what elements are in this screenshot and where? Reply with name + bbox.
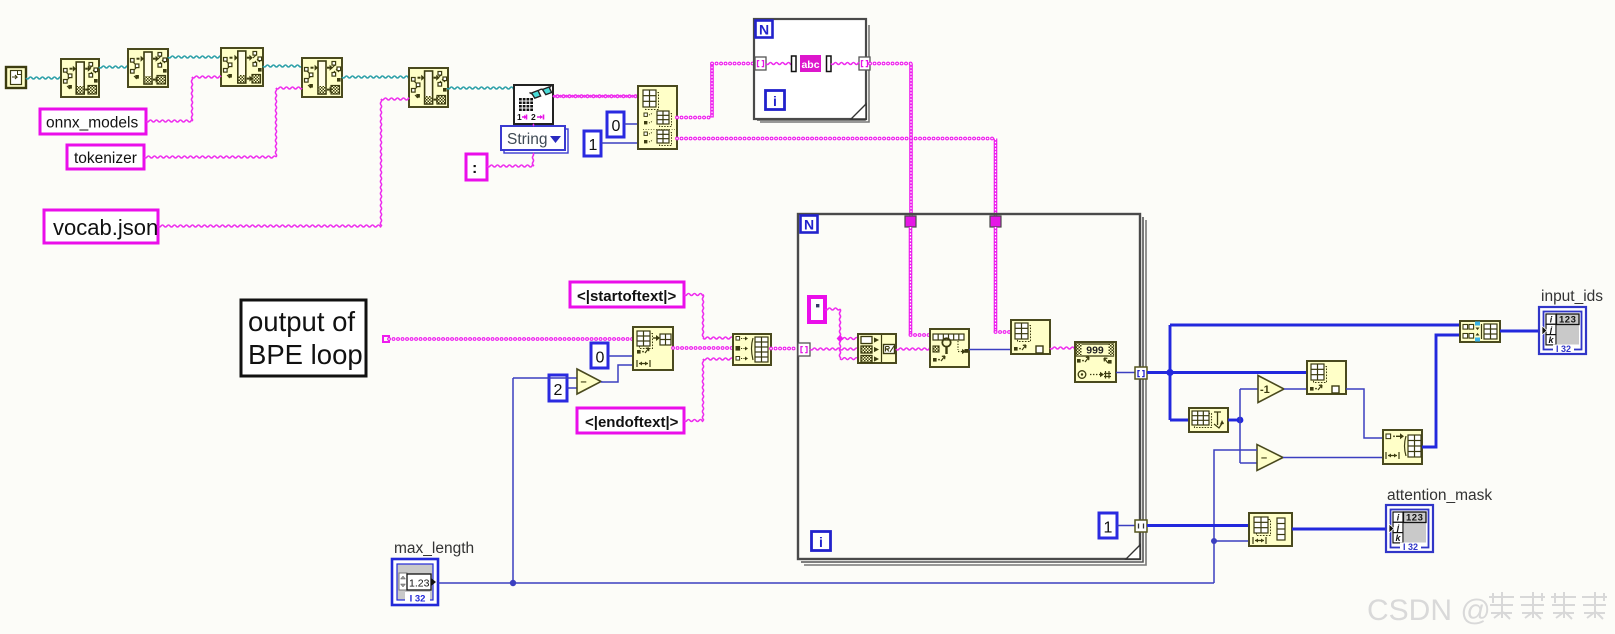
svg-text:<|startoftext|>: <|startoftext|> — [577, 288, 676, 305]
delimiter constant : — [466, 154, 487, 180]
Index Array node U7 — [1011, 320, 1050, 354]
wire Build Array 2 to input_ids (blue array) — [1500, 330, 1539, 333]
svg-text:–: – — [1261, 452, 1267, 464]
for loop 1 left tunnel — [755, 57, 766, 70]
wire loop1 output to main loop tunnel (pink array) — [870, 62, 911, 66]
Array Subset node U3 — [633, 327, 673, 370]
svg-text:vocab.json: vocab.json — [53, 215, 158, 240]
svg-text:input_ids: input_ids — [1541, 288, 1603, 305]
for loop 1 dog ear — [851, 104, 866, 119]
Read Spreadsheet String node U1 — [514, 85, 553, 124]
numeric constant 1 — [584, 131, 601, 156]
main loop count terminal N — [801, 216, 818, 233]
svg-text:N: N — [759, 22, 769, 38]
string constant onnx_models — [40, 109, 146, 134]
Initialize Array node U13 — [1249, 513, 1292, 546]
indicator terminal attention_mask — [1386, 505, 1433, 552]
Build Path node 2 — [128, 49, 168, 87]
wire 1 to index array (blue) — [601, 142, 638, 144]
svg-text:BPE loop: BPE loop — [248, 339, 363, 370]
Build Path node 1 — [61, 59, 99, 97]
wire row0 array to small for-loop (pink array) — [677, 116, 712, 120]
wire Build Path 3 to 4 (teal) — [263, 65, 302, 67]
junction ids array — [1166, 369, 1173, 376]
wire 0 to Array Subset (blue) — [608, 355, 633, 357]
main loop left tunnel (auto index) — [798, 343, 810, 356]
junction max_length to subtract — [510, 580, 516, 586]
wire Build Path 5 to spreadsheet node (teal) — [447, 87, 514, 89]
svg-text:<|endoftext|>: <|endoftext|> — [585, 414, 679, 431]
string constant <|startoftext|> — [570, 282, 684, 307]
svg-text:output of: output of — [248, 306, 355, 337]
for loop 1 right tunnel — [859, 57, 870, 70]
main loop dog ear — [1126, 545, 1140, 559]
wire tunnel A to Search 1D Array (pink array) — [909, 227, 913, 335]
string constant <|endoftext|> — [577, 408, 684, 433]
main loop top tunnel B (solid) — [990, 216, 1001, 227]
wire decrement to Index Array 2 (blue) — [1284, 388, 1307, 390]
string constant vocab.json — [44, 210, 158, 243]
wire startoftext to Build Array (pink string) — [684, 294, 703, 296]
for loop 1 frame — [754, 19, 866, 119]
svg-text:N: N — [804, 217, 814, 233]
wire trim to tunnel (pink) — [831, 63, 859, 65]
svg-text:1: 1 — [517, 112, 522, 122]
svg-text:1: 1 — [1104, 520, 1113, 537]
svg-text:tokenizer: tokenizer — [74, 150, 137, 167]
svg-text:onnx_models: onnx_models — [46, 115, 138, 132]
wire tunnel B to Index Array (pink array) — [994, 227, 998, 332]
svg-text:999: 999 — [1086, 345, 1104, 357]
svg-text::: : — [472, 160, 477, 177]
Sort 1D Array node U9 — [1189, 408, 1228, 432]
svg-text:max_length: max_length — [394, 540, 474, 557]
svg-text:j: j — [1549, 325, 1553, 335]
for loop 1 iteration terminal i — [766, 91, 785, 110]
svg-text:I 32: I 32 — [410, 594, 426, 605]
Search 1D Array node U6 — [930, 329, 969, 367]
wire Build Array to main loop tunnel (pink array) — [771, 347, 798, 351]
type selector dropdown String — [504, 129, 568, 153]
main loop iteration terminal i — [812, 532, 831, 551]
Trim Whitespace icon — [792, 56, 797, 72]
wire tunnel to trim (pink) — [766, 63, 792, 65]
svg-text:abc: abc — [801, 59, 819, 71]
wire endoftext to Build Array (pink string) — [684, 420, 703, 422]
wire 0 to index array (blue) — [624, 123, 638, 125]
wire max_length out (blue) — [438, 582, 1214, 584]
svg-text:123: 123 — [1559, 315, 1576, 326]
Index Array node U10 — [1307, 361, 1346, 394]
for loop 1 count terminal N — [756, 21, 773, 38]
wire tunnel to concatenate (pink string) — [810, 348, 858, 350]
main loop top tunnel A (solid) — [905, 216, 916, 227]
wire Build Path 4 to 5 (teal) — [342, 76, 409, 78]
junction pink diamond — [837, 335, 844, 343]
svg-text:I 32: I 32 — [1403, 542, 1418, 552]
svg-text:i: i — [819, 534, 823, 550]
main loop right tunnel mask out — [1135, 520, 1147, 532]
numeric constant 0 — [607, 112, 624, 137]
main loop right tunnel number out (auto index) — [1135, 367, 1147, 379]
svg-text:0: 0 — [612, 118, 621, 135]
wire 1 to mask tunnel (blue) — [1117, 525, 1135, 527]
for loop 1 frame stack — [760, 25, 869, 122]
svg-text:-1: -1 — [1260, 384, 1270, 396]
wire Index Array 2 to Array Subset 2 (blue) — [1346, 389, 1383, 438]
wire spreadsheet 2D string array output (pink 2D) — [553, 95, 638, 97]
wire Array Subset to Build Array (pink array) — [673, 346, 733, 350]
string constant quote inside loop — [809, 297, 825, 322]
wire onnx_models to Build Path 3 (pink string) — [146, 120, 192, 122]
wire terminal square BPE output — [383, 336, 389, 342]
Build Path node 3 — [221, 48, 263, 86]
main for loop frame — [798, 214, 1140, 559]
wire vocab.json to Build Path 5 (pink string) — [158, 225, 381, 227]
wire ids array from tunnel (blue array thick) — [1147, 371, 1307, 374]
numeric constant 0 (index) — [591, 343, 608, 368]
Build Array node U12 — [1460, 321, 1500, 342]
wire mask tunnel to Initialize Array (blue array) — [1147, 524, 1249, 527]
wire Index Array to Decimal String To Number (pink) — [1050, 347, 1075, 349]
Build Path node 5 — [409, 68, 448, 107]
wire tokenizer to Build Path 4 (pink string) — [144, 156, 276, 158]
wire search index to Index Array (blue) — [969, 349, 1011, 351]
wire Initialize Array to attention_mask (blue array) — [1292, 528, 1386, 531]
wire quote to concatenate (pink) — [825, 308, 840, 310]
wire : to dropdown (pink string) — [487, 165, 533, 167]
wire max_length to subtract (blue) — [513, 377, 577, 379]
wire concatenate to Search 1D Array (pink) — [896, 348, 930, 350]
wire number to output tunnel (blue) — [1116, 372, 1135, 374]
Concatenate Strings node U5 — [858, 334, 896, 363]
Index Array double node U2 — [638, 86, 677, 149]
wire node to dropdown (pink) — [532, 124, 535, 126]
wire BPE output to Array Subset (pink array) — [389, 337, 633, 341]
junction sorted array — [1237, 417, 1244, 424]
wire path icon to Build Path 1 (teal) — [26, 77, 61, 79]
wire subtract 2 to Array Subset 2 (blue) — [1283, 457, 1383, 459]
VI path file icon — [6, 67, 26, 88]
numeric constant 1 inside loop — [1099, 513, 1117, 538]
Decimal String To Number node U8 — [1075, 342, 1116, 382]
numeric constant 2 — [549, 375, 567, 401]
svg-text:String: String — [507, 131, 548, 148]
svg-text:1: 1 — [589, 137, 598, 154]
Build Array node U4 — [733, 334, 771, 365]
subtract node Q3 — [577, 369, 601, 394]
free label output of BPE loop — [241, 300, 366, 376]
junction max_length to Initialize Array — [1211, 538, 1217, 544]
wire Build Path 1 to 2 (teal) — [99, 66, 128, 68]
wire row1 array to main loop tunnel (pink array) — [677, 137, 996, 141]
subtract node Q2 — [1257, 445, 1283, 471]
Array Subset node U11 — [1383, 430, 1422, 464]
svg-text:–: – — [581, 376, 587, 388]
svg-text:123: 123 — [1406, 513, 1423, 524]
wire 2 to subtract (blue) — [567, 387, 577, 389]
svg-text:0: 0 — [596, 350, 605, 367]
svg-text:attention_mask: attention_mask — [1387, 487, 1492, 504]
decrement node Q1 -1 — [1258, 376, 1284, 403]
indicator terminal input_ids — [1539, 307, 1586, 354]
Build Path node 4 — [302, 58, 342, 97]
control terminal max_length — [392, 559, 438, 605]
main for loop frame stack — [804, 220, 1146, 565]
string constant tokenizer — [67, 145, 144, 169]
svg-text:CSDN @: CSDN @ — [1367, 594, 1491, 627]
svg-text:2: 2 — [554, 382, 563, 399]
coercion dots Build Array 2 — [1475, 322, 1480, 326]
wire subtract to Array Subset length (blue) — [601, 365, 633, 382]
svg-text:I 32: I 32 — [1556, 344, 1571, 354]
wire sort output (blue) — [1228, 419, 1240, 422]
svg-text:2: 2 — [531, 112, 536, 122]
wire Array Subset 2 to Build Array 2 (blue array) — [1422, 335, 1460, 447]
svg-text:i: i — [773, 93, 777, 109]
wire Build Path 2 to 3 (teal) — [168, 56, 221, 58]
svg-text:1.23: 1.23 — [409, 578, 430, 590]
svg-text:j: j — [1396, 523, 1400, 533]
wire max_length to subtract 2 (blue) — [1214, 450, 1257, 583]
